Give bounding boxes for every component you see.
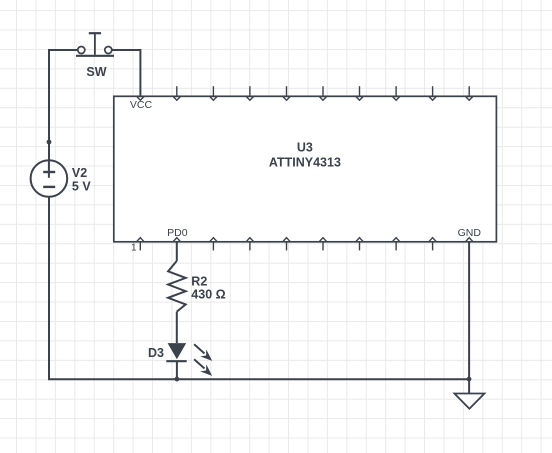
wire (top-left horizontal, corner down to junction) (49, 50, 78, 142)
node B (junction LED/bottom rail) (175, 377, 180, 382)
pin stub (bottom 9) (429, 238, 436, 251)
pin stub (bottom 3) (210, 238, 217, 251)
node A (junction on left rail) (47, 140, 52, 145)
svg-text:D3: D3 (148, 346, 164, 360)
svg-text:VCC: VCC (130, 99, 153, 111)
wire (GND pin down to ground) (468, 242, 470, 394)
svg-text:430 Ω: 430 Ω (191, 288, 225, 302)
pin stub (bottom 5) (283, 238, 290, 251)
svg-text:GND: GND (458, 227, 482, 239)
pin stub (top 7) (356, 86, 363, 100)
wire (PD0 pin down to resistor) (176, 242, 178, 261)
wire (switch to VCC pin) (112, 50, 141, 96)
pin stub (top 5) (283, 86, 290, 100)
node C (junction GND/bottom rail) (467, 377, 472, 382)
pin PD0 arrowhead (bottom pin 2) (173, 238, 180, 242)
wire (LED to bottom rail) (176, 361, 178, 379)
pin stub (top 10) (466, 86, 473, 100)
svg-text:1: 1 (131, 243, 137, 254)
pin stub (top 9) (429, 86, 436, 100)
svg-text:PD0: PD0 (167, 227, 188, 239)
pin GND arrowhead (bottom pin 10) (466, 238, 473, 242)
pin stub (bottom 6) (319, 238, 326, 251)
svg-text:V2: V2 (72, 166, 87, 180)
pin stub (bottom 7) (356, 238, 363, 251)
pin stub (top 3) (210, 86, 217, 100)
svg-text:SW: SW (86, 65, 106, 79)
pushbutton SW (76, 33, 114, 56)
pin stub (bottom 4) (246, 238, 253, 251)
svg-text:5 V: 5 V (72, 179, 91, 193)
LED D3 (166, 343, 212, 376)
resistor R2 (168, 261, 186, 312)
pin 1 stub (bottom, with number) (137, 238, 144, 251)
ground (454, 394, 484, 409)
op-amp U3 (IC body ATTINY4313) (114, 96, 497, 242)
svg-text:ATTINY4313: ATTINY4313 (269, 155, 341, 169)
pin stub (top 4) (246, 86, 253, 100)
pin stub (top 8) (392, 86, 399, 100)
voltage source V2 (31, 160, 68, 197)
wire (source to bottom rail and bottom rail to GND junction) (49, 197, 469, 379)
wire (resistor to LED) (176, 312, 178, 344)
svg-text:U3: U3 (297, 141, 313, 155)
pin VCC arrowhead (top pin 20) (137, 97, 144, 101)
pin stub (top 2) (173, 86, 180, 100)
pin stub (top 6) (319, 86, 326, 100)
pin stub (bottom 8) (392, 238, 399, 251)
wire (junction to source +, passes into circle) (48, 142, 50, 178)
svg-text:R2: R2 (191, 274, 207, 288)
